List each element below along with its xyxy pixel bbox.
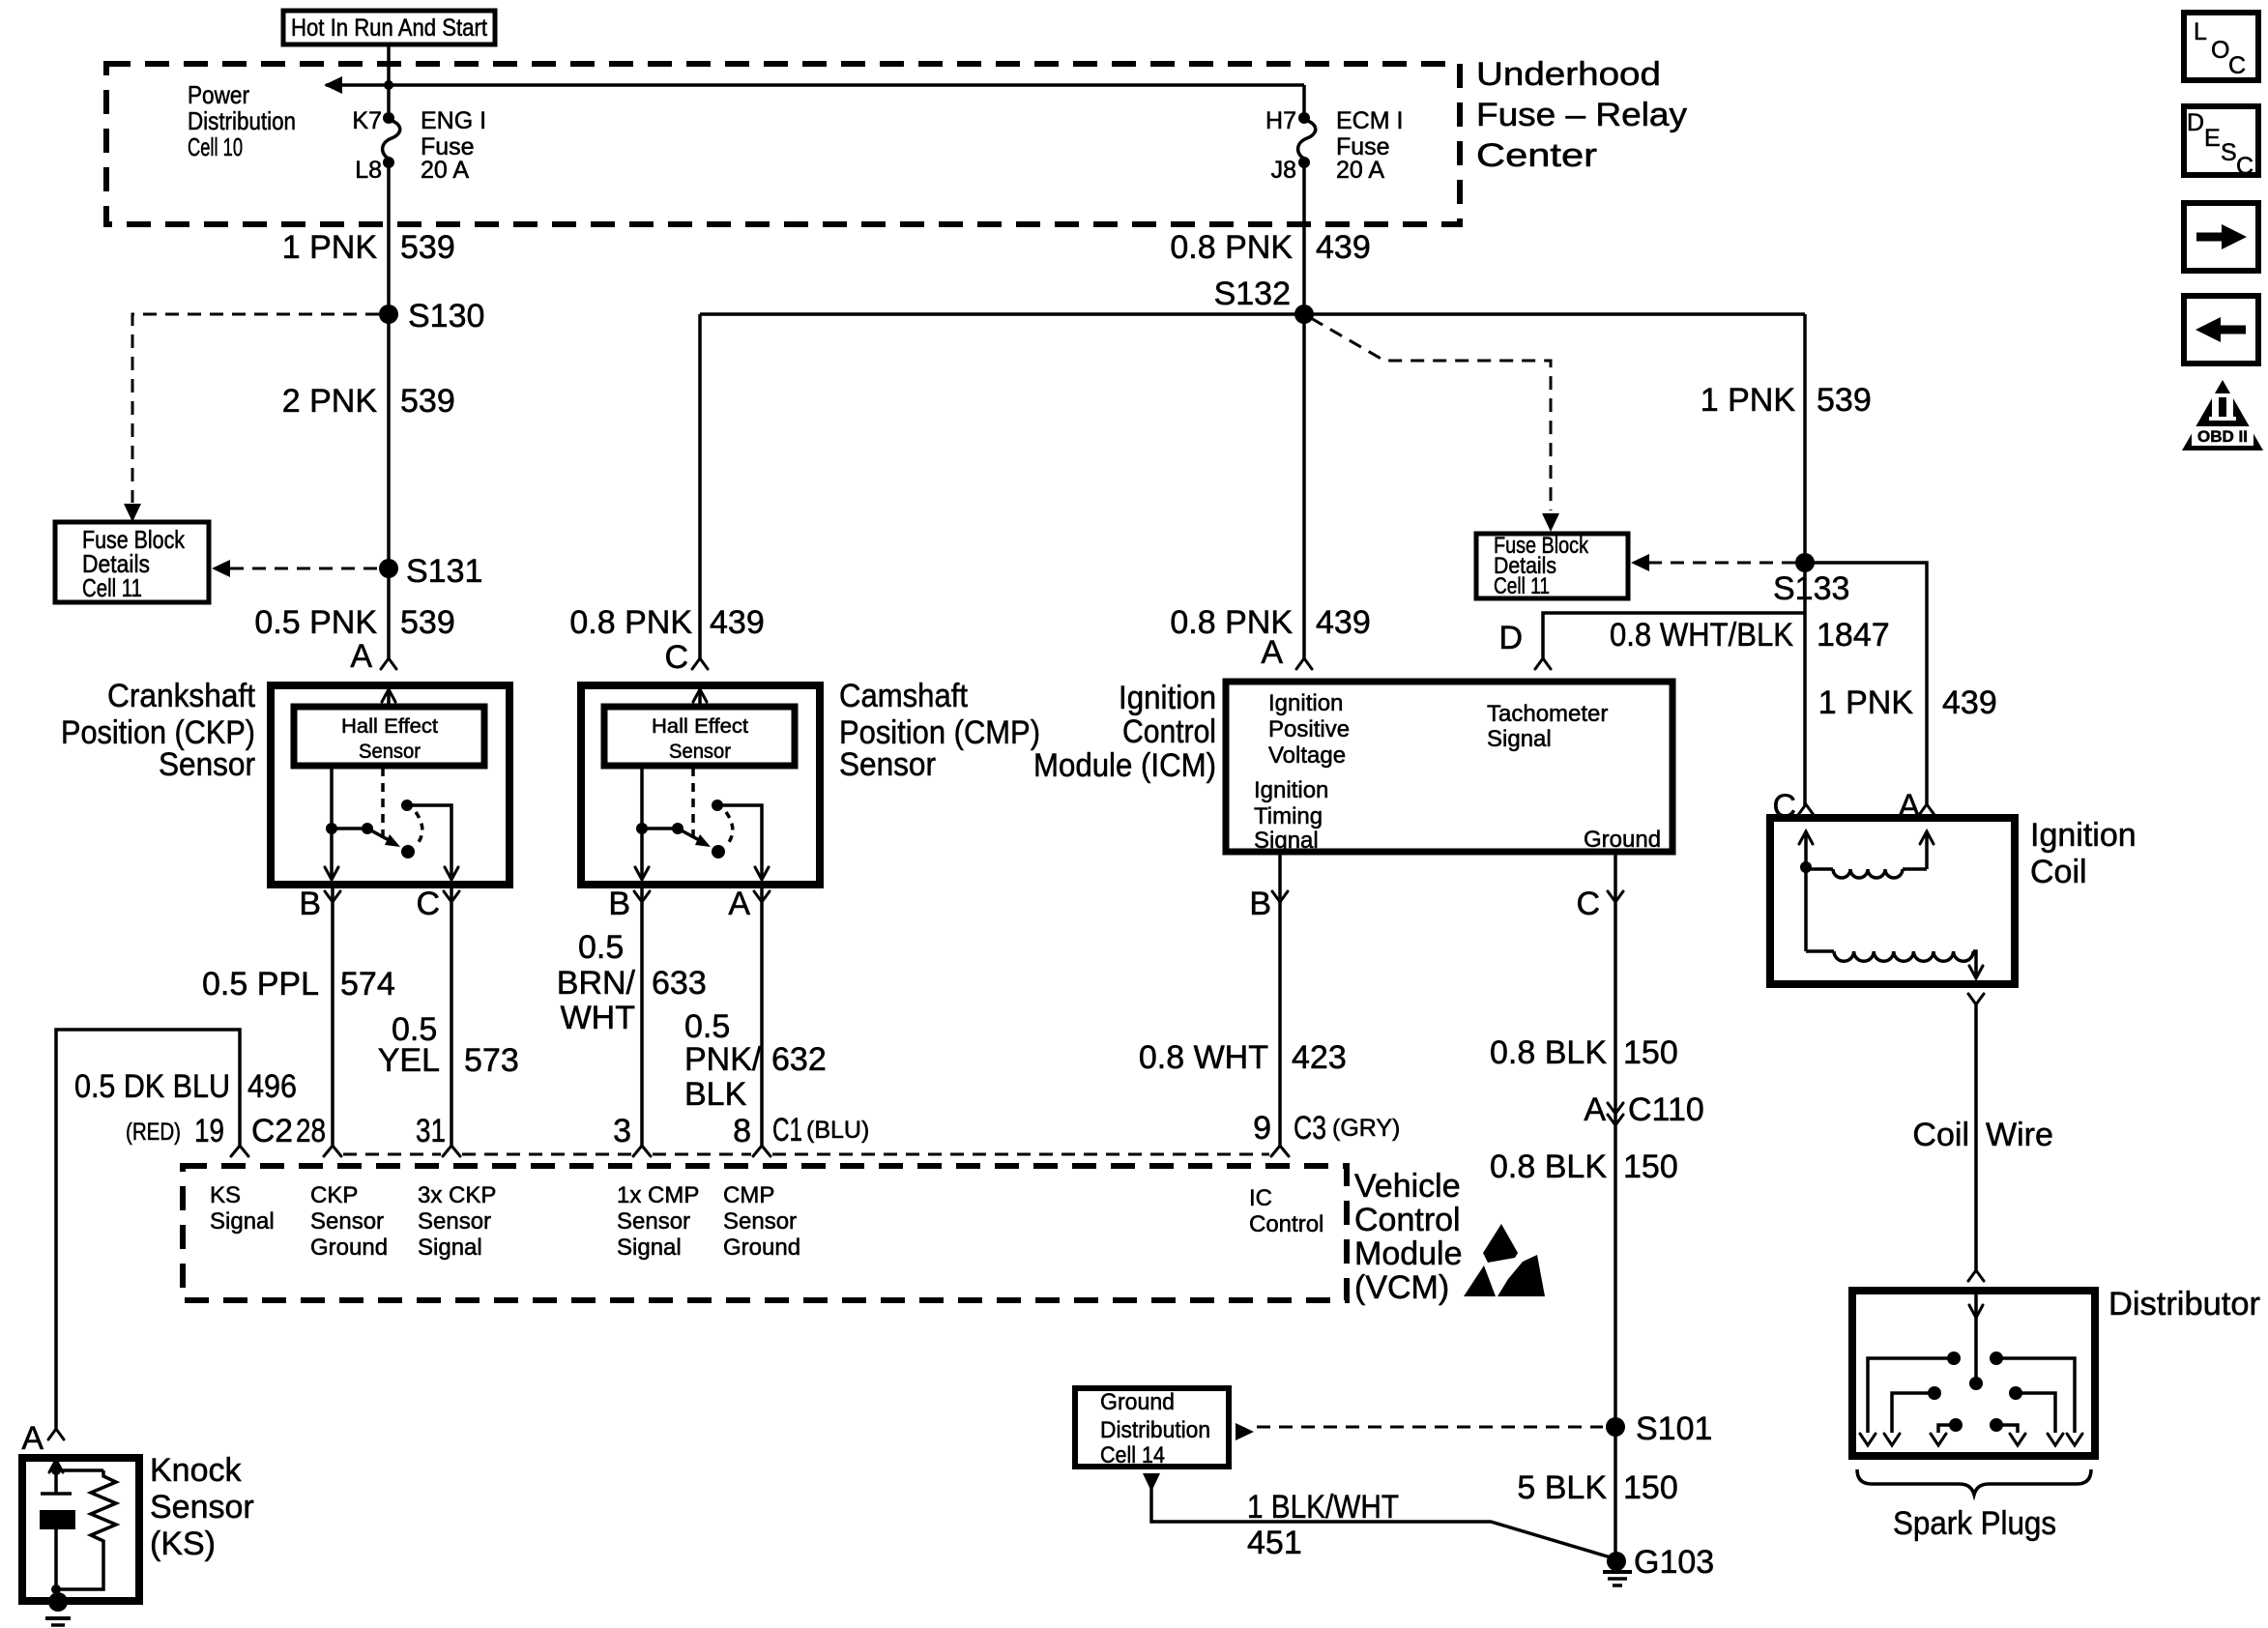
svg-text:Signal: Signal — [617, 1235, 682, 1261]
ignition coil box — [1770, 818, 2015, 984]
distributor box — [1852, 1291, 2095, 1456]
svg-text:CKP: CKP — [310, 1182, 358, 1208]
icon OBD II triangle — [2182, 380, 2263, 451]
node Ground Distribution Cell 14 box — [1075, 1388, 1229, 1468]
svg-text:(KS): (KS) — [150, 1526, 216, 1562]
svg-text:Center: Center — [1476, 137, 1597, 174]
svg-text:Sensor: Sensor — [723, 1208, 797, 1235]
arrow into Power Distribution — [324, 76, 342, 94]
label Underhood Fuse-Relay Center — [1476, 56, 1687, 174]
svg-text:C: C — [2228, 52, 2246, 79]
svg-text:0.8 BLK: 0.8 BLK — [1490, 1148, 1607, 1185]
ICM B terminal — [1249, 886, 1288, 922]
svg-text:Ignition: Ignition — [1268, 690, 1343, 716]
svg-text:Control: Control — [1249, 1211, 1323, 1237]
svg-text:S: S — [2221, 139, 2237, 166]
svg-text:1 PNK: 1 PNK — [282, 229, 378, 266]
label Coil Wire — [1912, 1117, 2052, 1153]
underhood fuse-relay center dashed box — [106, 64, 1460, 224]
svg-text:Fuse – Relay: Fuse – Relay — [1476, 97, 1687, 133]
svg-text:439: 439 — [710, 604, 765, 641]
ICM C (ground) terminal — [1576, 886, 1623, 922]
connector chevron ICM D — [1535, 658, 1551, 669]
svg-text:Cell 11: Cell 11 — [1494, 573, 1550, 599]
svg-text:S101: S101 — [1636, 1410, 1712, 1447]
svg-text:Ignition: Ignition — [1119, 680, 1216, 716]
svg-text:9: 9 — [1253, 1110, 1271, 1147]
svg-text:A: A — [1584, 1091, 1606, 1128]
svg-text:Signal: Signal — [1487, 726, 1552, 752]
svg-text:C1: C1 — [772, 1112, 802, 1148]
ground G103 — [1607, 1552, 1626, 1571]
svg-text:Control: Control — [1122, 713, 1216, 750]
label 0.8 PNK 439 (CMP C) — [569, 604, 764, 641]
svg-text:Hot In Run And Start: Hot In Run And Start — [291, 15, 487, 42]
wire CKP C to VCM pin 31 (YEL 573) — [450, 885, 453, 1146]
icon DESC — [2184, 106, 2258, 180]
svg-text:Cell 11: Cell 11 — [82, 573, 142, 602]
label 0.8 BLK 150 (upper) — [1490, 1034, 1678, 1071]
svg-text:CMP: CMP — [723, 1182, 774, 1208]
svg-text:K7: K7 — [352, 107, 382, 134]
coil internals: secondary winding — [1806, 867, 1983, 978]
icon arrow right — [2184, 203, 2258, 271]
wire S133 right branch down to coil A — [1805, 563, 1927, 805]
svg-text:L: L — [2194, 18, 2207, 45]
svg-text:Ground: Ground — [723, 1235, 800, 1261]
svg-text:20 A: 20 A — [421, 157, 469, 184]
svg-text:Wire: Wire — [1986, 1117, 2053, 1153]
svg-text:Module (ICM): Module (ICM) — [1033, 747, 1216, 784]
VCM pin function labels — [210, 1182, 1323, 1261]
dashed reference S133 to right Fuse Block box — [1649, 562, 1795, 565]
svg-text:Positive: Positive — [1268, 716, 1350, 742]
svg-text:OBD II: OBD II — [2197, 427, 2248, 446]
label 0.5 PNK/BLK 632 — [684, 1008, 827, 1113]
label Ignition Control Module (ICM) — [1033, 680, 1216, 784]
svg-text:Vehicle: Vehicle — [1354, 1168, 1461, 1205]
dashed reference S132 to right Fuse Block box — [1311, 318, 1551, 510]
svg-text:3x CKP: 3x CKP — [418, 1182, 496, 1208]
svg-text:Coil: Coil — [2030, 854, 2087, 890]
label 0.5 PNK 539 — [254, 604, 454, 641]
svg-text:439: 439 — [1942, 684, 1997, 721]
wire CKP B to VCM pin 28 (PPL 574) — [331, 885, 334, 1146]
svg-text:BLK: BLK — [684, 1076, 747, 1113]
svg-text:20 A: 20 A — [1336, 157, 1384, 184]
svg-text:Sensor: Sensor — [669, 741, 731, 763]
svg-text:Voltage: Voltage — [1268, 742, 1346, 769]
wire horizontal feed y=88 to ECM fuse — [326, 83, 1304, 87]
CMP inner feed arrow — [693, 689, 707, 707]
svg-text:439: 439 — [1316, 604, 1371, 641]
svg-text:539: 539 — [400, 604, 455, 641]
dashed reference to S101 — [1236, 1423, 1254, 1440]
wire coil to distributor (coil wire) — [1974, 1004, 1978, 1271]
svg-text:(BLU): (BLU) — [806, 1117, 869, 1144]
svg-text:632: 632 — [771, 1041, 827, 1078]
svg-text:A: A — [21, 1420, 44, 1457]
label 1 PNK 539 (right) — [1701, 382, 1872, 419]
svg-text:539: 539 — [400, 229, 455, 266]
junction dot at 402,88 — [384, 80, 393, 90]
svg-text:S130: S130 — [408, 298, 484, 334]
label Knock Sensor (KS) — [150, 1452, 254, 1562]
icon LOC — [2184, 13, 2258, 80]
svg-text:Hall Effect: Hall Effect — [652, 715, 748, 738]
svg-text:S133: S133 — [1773, 570, 1849, 607]
fuse F2 ECM I 20A — [1265, 85, 1403, 184]
label 0.8 PNK 439 (top, ECM fuse out) — [1170, 229, 1370, 266]
svg-text:(RED): (RED) — [126, 1119, 181, 1146]
svg-text:0.5: 0.5 — [578, 929, 624, 966]
ground distribution drop wire 1 BLK/WHT 451 — [1143, 1473, 1160, 1492]
svg-text:150: 150 — [1623, 1034, 1678, 1071]
svg-text:8: 8 — [733, 1113, 751, 1149]
svg-text:0.8 WHT: 0.8 WHT — [1139, 1039, 1268, 1076]
junction S131 — [379, 559, 398, 578]
svg-text:423: 423 — [1292, 1039, 1347, 1076]
ICM box — [1226, 682, 1672, 852]
connector chevron CMP C — [692, 658, 708, 669]
knock sensor box — [22, 1458, 139, 1601]
label 5 BLK 150 — [1517, 1469, 1677, 1506]
svg-text:Signal: Signal — [1254, 828, 1319, 854]
svg-text:0.8 PNK: 0.8 PNK — [569, 604, 692, 641]
CMP sensor box — [581, 685, 820, 885]
wire S132 down to ICM A — [1302, 162, 1306, 659]
label Vehicle Control Module (VCM) — [1354, 1168, 1463, 1306]
wire ENG fuse to CKP sensor (PNK 539) — [387, 162, 391, 659]
svg-text:150: 150 — [1623, 1148, 1678, 1185]
svg-text:L8: L8 — [355, 157, 382, 184]
wire S133 down to coil C (WHT/BLK 1847 tach branch) — [1803, 563, 1807, 805]
svg-text:C2: C2 — [251, 1113, 293, 1149]
svg-text:Sensor: Sensor — [617, 1208, 690, 1235]
svg-text:Ground: Ground — [1100, 1389, 1175, 1415]
svg-text:Sensor: Sensor — [159, 746, 255, 783]
svg-text:Coil: Coil — [1912, 1117, 1969, 1153]
svg-text:Camshaft: Camshaft — [839, 678, 969, 714]
svg-text:C: C — [1772, 788, 1796, 825]
svg-text:C: C — [664, 639, 688, 676]
svg-text:E: E — [2204, 125, 2221, 152]
ICM internal labels — [1254, 690, 1661, 854]
svg-text:Cell 10: Cell 10 — [188, 132, 243, 161]
wire S132 right end down to S133 — [1803, 314, 1807, 563]
svg-text:ECM I: ECM I — [1336, 107, 1403, 134]
svg-text:Knock: Knock — [150, 1452, 242, 1489]
svg-text:Power: Power — [188, 80, 249, 109]
CMP hall switch internals — [635, 766, 769, 880]
svg-text:28: 28 — [296, 1113, 326, 1149]
svg-text:539: 539 — [1817, 382, 1872, 419]
label 0.8 BLK 150 (lower) — [1490, 1148, 1678, 1185]
CMP hall effect sensor box — [604, 707, 795, 766]
svg-text:31: 31 — [416, 1113, 446, 1149]
svg-text:Cell 14: Cell 14 — [1100, 1442, 1165, 1468]
junction S132 — [1294, 305, 1314, 324]
svg-text:O: O — [2211, 37, 2229, 64]
label Power Distribution Cell 10 — [188, 80, 296, 161]
svg-text:Signal: Signal — [418, 1235, 482, 1261]
distributor rotor internals — [1860, 1294, 2082, 1445]
junction S130 — [379, 305, 398, 324]
svg-text:5 BLK: 5 BLK — [1517, 1469, 1607, 1506]
connector chevron CKP A — [381, 658, 396, 669]
svg-text:150: 150 — [1623, 1469, 1678, 1506]
svg-text:Hall Effect: Hall Effect — [341, 715, 438, 738]
svg-text:BRN/: BRN/ — [557, 965, 636, 1002]
svg-text:Signal: Signal — [210, 1208, 275, 1235]
svg-text:C110: C110 — [1628, 1091, 1704, 1128]
label Ignition Coil — [2030, 817, 2137, 890]
svg-text:C3: C3 — [1294, 1110, 1326, 1147]
connector chevron ICM A — [1296, 658, 1312, 669]
svg-text:A: A — [728, 886, 750, 922]
svg-text:(GRY): (GRY) — [1332, 1115, 1400, 1142]
svg-text:Ignition: Ignition — [1254, 777, 1328, 803]
wire CMP B to VCM pin 3 (BRN/WHT 633) — [640, 885, 644, 1146]
CKP hall effect sensor box — [294, 707, 484, 766]
wire branch to ICM D — [1543, 613, 1805, 659]
svg-text:Distribution: Distribution — [1100, 1417, 1210, 1443]
ground symbol — [1603, 1572, 1632, 1585]
junction S133 — [1795, 553, 1815, 572]
label 0.5 BRN/WHT 633 — [557, 929, 707, 1036]
wire CMP A to VCM pin 8 (PNK/BLK 632) — [760, 885, 764, 1146]
svg-text:Distribution: Distribution — [188, 106, 296, 135]
svg-text:633: 633 — [652, 965, 707, 1002]
ESD sensitive symbol — [1464, 1224, 1545, 1296]
svg-text:S131: S131 — [406, 553, 482, 590]
VCM dashed box — [183, 1166, 1347, 1300]
svg-text:0.5: 0.5 — [684, 1008, 730, 1045]
svg-text:0.5 PPL: 0.5 PPL — [202, 966, 319, 1003]
label 2 PNK 539 — [282, 383, 455, 420]
node Fuse Block Details Cell 11 (left) — [55, 522, 209, 602]
KS A terminal — [21, 1420, 64, 1457]
svg-text:Sensor: Sensor — [418, 1208, 491, 1235]
svg-text:Spark Plugs: Spark Plugs — [1893, 1505, 2056, 1542]
svg-text:PNK/: PNK/ — [684, 1041, 762, 1078]
svg-text:A: A — [1898, 788, 1920, 825]
svg-text:B: B — [1249, 886, 1271, 922]
svg-text:439: 439 — [1316, 229, 1371, 266]
coil A terminal — [1898, 788, 1934, 825]
svg-text:1 PNK: 1 PNK — [1818, 684, 1914, 721]
svg-text:A: A — [350, 638, 372, 675]
label 0.5 YEL 573 — [378, 1011, 519, 1079]
svg-text:0.8 BLK: 0.8 BLK — [1490, 1034, 1607, 1071]
svg-text:IC: IC — [1249, 1185, 1272, 1211]
svg-text:Control: Control — [1354, 1202, 1461, 1238]
svg-text:KS: KS — [210, 1182, 241, 1208]
svg-text:WHT: WHT — [561, 1000, 635, 1036]
label 0.8 WHT 423 — [1139, 1039, 1347, 1076]
svg-text:574: 574 — [340, 966, 395, 1003]
svg-text:G103: G103 — [1634, 1544, 1714, 1581]
svg-text:H7: H7 — [1265, 107, 1296, 134]
label 0.8 WHT/BLK 1847 — [1610, 617, 1890, 654]
svg-text:Tachometer: Tachometer — [1487, 701, 1608, 727]
svg-text:B: B — [299, 886, 321, 922]
pin labels C2 28 31 3 8 C1 — [251, 1110, 1400, 1149]
svg-text:C: C — [2236, 153, 2253, 180]
svg-text:S132: S132 — [1214, 276, 1291, 312]
CKP hall switch internals — [325, 766, 458, 880]
svg-text:573: 573 — [464, 1042, 519, 1079]
svg-text:3: 3 — [613, 1113, 631, 1149]
wire S132 horizontal bus y=325 — [700, 312, 1805, 316]
svg-text:Crankshaft: Crankshaft — [107, 678, 256, 714]
svg-text:Ground: Ground — [310, 1235, 388, 1261]
svg-text:0.5 PNK: 0.5 PNK — [254, 604, 377, 641]
knock sensor internals (piezo + resistor) — [40, 1460, 116, 1625]
label (RED) 19 — [126, 1113, 224, 1149]
coil internals: primary winding — [1799, 831, 1934, 878]
VCM connector dashed link line — [343, 1153, 1269, 1156]
dashed reference S130 to left Fuse Block Details box — [132, 314, 379, 503]
distributor entry chevron — [1968, 1270, 1984, 1281]
svg-text:D: D — [2187, 109, 2204, 136]
svg-text:0.5 DK BLU: 0.5 DK BLU — [74, 1068, 230, 1105]
svg-text:C: C — [416, 886, 440, 922]
svg-text:1 PNK: 1 PNK — [1701, 382, 1796, 419]
svg-text:Distributor: Distributor — [2108, 1286, 2260, 1323]
svg-text:0.8 WHT/BLK: 0.8 WHT/BLK — [1610, 617, 1793, 654]
label 0.5 DK BLU 496 — [74, 1068, 297, 1105]
wire CMP feed: S132 left end down to CMP C — [698, 314, 702, 659]
svg-text:496: 496 — [247, 1068, 297, 1105]
VCM connector row chevrons — [231, 1146, 1289, 1156]
svg-text:539: 539 — [400, 383, 455, 420]
label Camshaft Position (CMP) Sensor — [839, 678, 1040, 783]
icon arrow left — [2184, 296, 2258, 363]
wire from Hot box down to fuse ENG I — [387, 44, 391, 118]
svg-text:ENG I: ENG I — [421, 107, 486, 134]
svg-text:19: 19 — [194, 1113, 224, 1149]
CKP sensor box — [271, 685, 509, 885]
wire ICM C ground to G103 — [1614, 852, 1617, 1561]
label 1 PNK 539 — [282, 229, 455, 266]
wire ICM B to VCM pin 9 C3 (WHT 423) — [1278, 852, 1282, 1146]
label 1 PNK 439 — [1818, 684, 1997, 721]
svg-text:Sensor: Sensor — [310, 1208, 384, 1235]
svg-text:J8: J8 — [1271, 157, 1296, 184]
coil secondary output chevron — [1968, 994, 1984, 1004]
svg-text:B: B — [608, 886, 630, 922]
svg-text:0.8 PNK: 0.8 PNK — [1170, 229, 1293, 266]
svg-text:Underhood: Underhood — [1476, 56, 1661, 93]
node Fuse Block Details Cell 11 (right) — [1476, 533, 1628, 599]
svg-text:D: D — [1498, 620, 1523, 656]
junction S101 — [1606, 1417, 1625, 1437]
svg-text:Sensor: Sensor — [839, 746, 936, 783]
svg-text:1x CMP: 1x CMP — [617, 1182, 699, 1208]
label 0.5 PPL 574 — [202, 966, 395, 1003]
CKP inner feed arrow — [382, 689, 395, 707]
svg-text:(VCM): (VCM) — [1354, 1269, 1449, 1306]
svg-text:451: 451 — [1247, 1525, 1302, 1561]
coil C terminal — [1772, 788, 1814, 825]
svg-text:2 PNK: 2 PNK — [282, 383, 378, 420]
dashed reference S131 to Fuse Block box — [230, 567, 377, 570]
svg-text:Ground: Ground — [1584, 827, 1661, 853]
inline connector C110 — [1584, 1091, 1703, 1128]
fuse F1 ENG I 20A — [352, 107, 486, 184]
svg-text:YEL: YEL — [378, 1042, 440, 1079]
CMP B / A terminals — [608, 886, 770, 922]
node Hot In Run And Start box — [283, 11, 495, 44]
svg-text:Module: Module — [1354, 1236, 1463, 1272]
svg-text:Sensor: Sensor — [359, 741, 421, 763]
svg-text:Timing: Timing — [1254, 803, 1323, 829]
CKP B / C terminals — [299, 886, 459, 922]
svg-text:A: A — [1261, 634, 1283, 671]
svg-text:1847: 1847 — [1817, 617, 1890, 654]
svg-text:Sensor: Sensor — [150, 1489, 254, 1526]
label 0.8 PNK 439 (ICM A) — [1170, 604, 1370, 641]
svg-text:1 BLK/WHT: 1 BLK/WHT — [1247, 1489, 1399, 1526]
label Crankshaft Position (CKP) Sensor — [61, 678, 256, 783]
svg-text:Ignition: Ignition — [2030, 817, 2137, 854]
spark plugs brace — [1857, 1469, 2091, 1495]
wire KS signal to VCM pin 19 (DK BLU 496) — [56, 1030, 240, 1429]
svg-text:C: C — [1576, 886, 1600, 922]
